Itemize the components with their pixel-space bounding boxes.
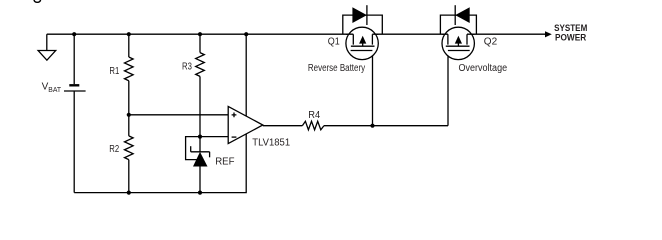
- svg-text:Q2: Q2: [484, 37, 498, 48]
- svg-text:R1: R1: [109, 66, 119, 77]
- svg-text:REF: REF: [215, 157, 234, 168]
- svg-text:R4: R4: [308, 110, 320, 121]
- svg-text:POWER: POWER: [555, 33, 586, 44]
- svg-text:TLV1851: TLV1851: [252, 138, 290, 149]
- svg-text:Reverse Battery: Reverse Battery: [308, 63, 365, 74]
- svg-text:BAT: BAT: [48, 87, 61, 94]
- svg-text:Q1: Q1: [328, 37, 340, 48]
- svg-text:R3: R3: [182, 62, 192, 73]
- svg-text:Overvoltage: Overvoltage: [459, 63, 508, 74]
- svg-text:R2: R2: [109, 144, 119, 155]
